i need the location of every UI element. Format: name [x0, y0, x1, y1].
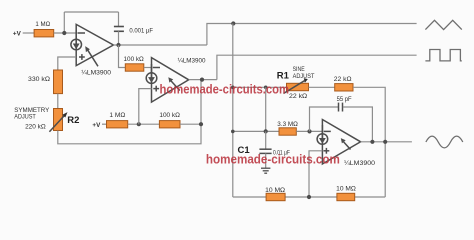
node junction dot 22k output [383, 140, 387, 144]
potentiometer R2 220 kΩ symmetry adjust [54, 109, 63, 131]
node junction dot feedback [199, 122, 203, 126]
wire U1 output row [113, 44, 206, 46]
current source circle U1 [71, 39, 82, 50]
svg-text:22 kΩ: 22 kΩ [289, 93, 308, 100]
minus input dash U2 [153, 67, 160, 69]
svg-text:0.001 µF: 0.001 µF [129, 27, 153, 34]
node junction dot R1 branch [264, 86, 268, 90]
wire sine-adjust row from rail [233, 86, 287, 88]
wire branch down to C1 node [265, 87, 267, 131]
wire R2 bottom to mid rail [58, 80, 201, 144]
node output U1 dot [116, 43, 120, 47]
capacitor C1 0.01 µF [265, 131, 267, 149]
glyph sine wave output [426, 136, 463, 148]
svg-text:ADJUST: ADJUST [293, 73, 315, 80]
wire cap top lead [118, 12, 120, 27]
amp arrow U1 [88, 50, 98, 66]
svg-text:10 MΩ: 10 MΩ [265, 187, 285, 194]
resistor 10 MΩ (left) [266, 193, 285, 200]
wire 55pF to output [343, 107, 373, 142]
node junction dot 55pF output [370, 140, 374, 144]
op-amp U3 (sine shaper) [317, 120, 361, 165]
wire 330k to R2 [57, 94, 59, 109]
svg-text:homemade-circuits.com: homemade-circuits.com [160, 83, 290, 97]
minus input dash U3 [324, 130, 331, 132]
current source circle U3 [317, 134, 328, 145]
wire C1 node row from rail [233, 130, 279, 132]
svg-text:R1: R1 [277, 70, 290, 81]
node junction dot rail C1 row [231, 130, 235, 134]
wire 22k to output vertical [353, 87, 385, 197]
resistor 330 kΩ [54, 70, 63, 94]
amp arrow U3 [344, 142, 351, 150]
svg-text:1 MΩ: 1 MΩ [35, 21, 50, 28]
svg-text:3.3 MΩ: 3.3 MΩ [277, 121, 298, 128]
svg-text:1 MΩ: 1 MΩ [109, 112, 125, 119]
node junction dot rail R1 row [231, 86, 235, 90]
wire 100k to U2 [144, 67, 152, 69]
node junction dot triangle row [231, 21, 235, 25]
resistor 10 MΩ (right) [337, 193, 355, 200]
svg-text:55 pF: 55 pF [337, 96, 352, 103]
wire bottom rail [233, 196, 385, 198]
wire R1 to 22k [309, 86, 335, 88]
svg-text:330 kΩ: 330 kΩ [28, 76, 50, 83]
resistor 3.3 MΩ [279, 128, 296, 135]
wire +V2 to 1M [102, 123, 107, 125]
wire 3.3M to U3 minus node [296, 130, 322, 132]
node junction dot U3 minus [307, 129, 311, 133]
svg-text:22 kΩ: 22 kΩ [334, 76, 352, 83]
resistor 1 MΩ (U2 bias) [107, 121, 128, 128]
op-amp U1 (integrator) [71, 24, 114, 66]
svg-text:220 kΩ: 220 kΩ [25, 123, 46, 130]
current source circle U2 [146, 73, 157, 84]
wire U3 plus input to bottom rail [309, 151, 322, 197]
svg-text:ADJUST: ADJUST [14, 114, 36, 121]
wire U1 plus input to 330k [58, 57, 76, 70]
plus input symbol U3 [324, 150, 330, 152]
wire U1 output up to triangle row [207, 24, 417, 46]
wire square-wave row [217, 55, 417, 79]
op-amp U2 (schmitt trigger) [146, 58, 189, 103]
resistor 100 kΩ (to U2 inverting input) [125, 64, 144, 71]
glyph triangle wave output [425, 20, 461, 29]
wire cap bottom lead to output node [118, 31, 120, 45]
ground [261, 168, 270, 173]
plus input symbol U1 [79, 56, 85, 58]
wire +V to R 1M [23, 32, 34, 34]
capacitor 0.001 µF [114, 27, 124, 32]
minus input dash U1 [78, 32, 86, 34]
wire R 1M to op-amp U1 inverting input [54, 32, 76, 34]
wire U3 output row [361, 141, 412, 143]
wire U2 output stub [189, 79, 217, 81]
wire C1 to ground [265, 153, 267, 168]
svg-text:+V: +V [13, 30, 22, 37]
wire feedback top run [64, 11, 118, 13]
svg-text:¼LM3900: ¼LM3900 [81, 69, 111, 76]
svg-text:homemade-circuits.com: homemade-circuits.com [206, 153, 340, 167]
potentiometer R1 22 kΩ sine adjust [287, 83, 309, 90]
wire 1M to 100k junction [128, 123, 160, 125]
amp arrow U2 [171, 81, 180, 91]
svg-text:SINE: SINE [293, 66, 305, 73]
wire up to U2 plus input [139, 89, 152, 125]
svg-text:100 kΩ: 100 kΩ [124, 56, 145, 63]
node junction dot U2 plus input [137, 122, 141, 126]
node junction dot U2 output [200, 78, 204, 82]
svg-text:¼LM3900: ¼LM3900 [344, 160, 376, 167]
capacitor 55 pF [339, 103, 343, 112]
node junction dot bottom rail [307, 195, 311, 199]
node junction dot C1 [264, 129, 268, 133]
wire 100k to feedback node [180, 123, 201, 125]
resistor 100 kΩ (U2 positive feedback) [159, 121, 180, 128]
wire output down to 100k [119, 45, 126, 68]
svg-text:+V: +V [92, 122, 101, 129]
glyph square wave output [425, 50, 461, 61]
svg-text:10 MΩ: 10 MΩ [336, 185, 356, 192]
node junction dot input U1 [62, 31, 66, 35]
resistor 22 kΩ (series) [335, 84, 353, 91]
resistor 1 MΩ (input, top-left) [34, 30, 54, 37]
plus input symbol U2 [153, 88, 159, 90]
svg-text:100 kΩ: 100 kΩ [159, 112, 180, 119]
wire main left rail down [232, 24, 234, 198]
svg-text:¼LM3900: ¼LM3900 [178, 58, 206, 65]
wire 55pF feedback row [310, 107, 339, 131]
wire feedback vertical at input node [63, 12, 65, 33]
svg-text:R2: R2 [67, 115, 79, 126]
